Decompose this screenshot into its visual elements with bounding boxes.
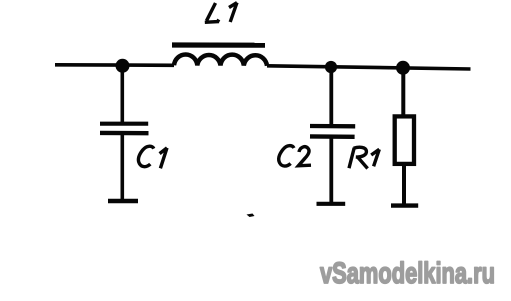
svg-text:vSamodelkina.ru: vSamodelkina.ru [320,257,495,290]
